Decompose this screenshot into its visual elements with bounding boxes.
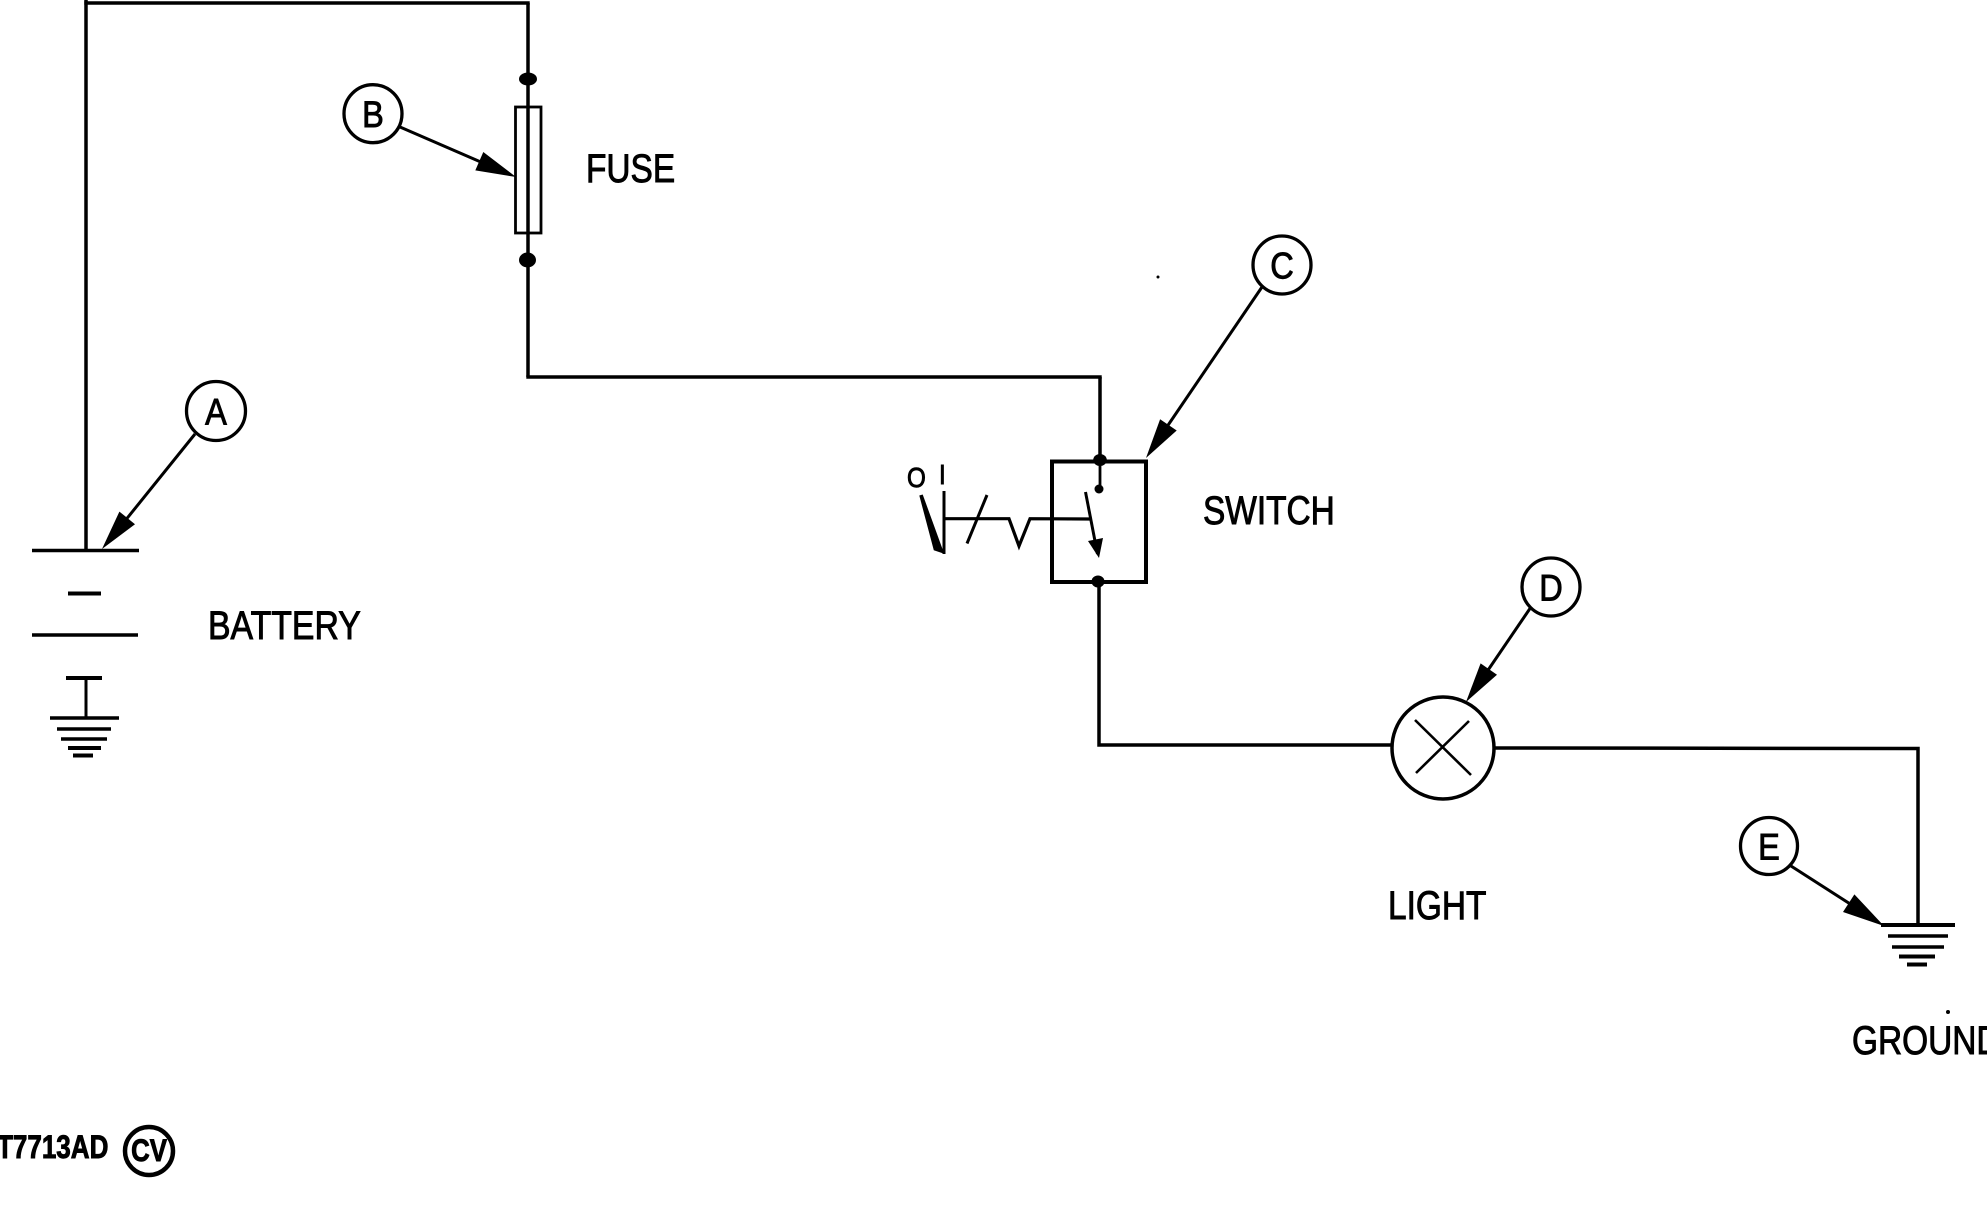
svg-text:A: A: [205, 392, 227, 433]
svg-text:LIGHT: LIGHT: [1388, 882, 1486, 928]
svg-text:BATTERY: BATTERY: [208, 602, 361, 647]
svg-text:D: D: [1539, 568, 1563, 609]
svg-text:I: I: [939, 461, 946, 491]
svg-text:O: O: [907, 464, 926, 494]
svg-text:FUSE: FUSE: [586, 145, 675, 191]
svg-text:B: B: [362, 94, 384, 135]
svg-text:E: E: [1758, 827, 1780, 868]
svg-text:C: C: [1270, 246, 1294, 287]
svg-text:SWITCH: SWITCH: [1203, 487, 1335, 533]
svg-text:CV: CV: [131, 1134, 167, 1169]
svg-text:T7713AD: T7713AD: [0, 1129, 108, 1166]
svg-text:GROUND: GROUND: [1852, 1017, 1987, 1063]
